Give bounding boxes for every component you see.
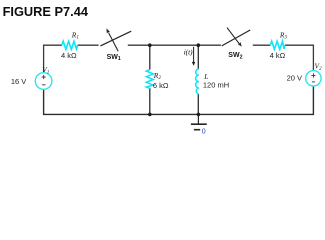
- svg-text:6 kΩ: 6 kΩ: [153, 81, 169, 90]
- ground: [197, 114, 199, 124]
- switch SW2 arrow: [227, 28, 239, 44]
- svg-text:4 kΩ: 4 kΩ: [61, 51, 77, 60]
- node B junction dot (top of L branch): [197, 43, 201, 47]
- svg-text:20 V: 20 V: [287, 74, 302, 83]
- svg-text:FIGURE P7.44: FIGURE P7.44: [3, 4, 89, 19]
- inductor L: [196, 69, 199, 94]
- resistor R1: [62, 41, 78, 49]
- wire R1 to SW1 left contact: [78, 44, 99, 46]
- wire R3 to top right corner: [285, 45, 314, 71]
- svg-text:120 mH: 120 mH: [203, 80, 229, 89]
- svg-text:4 kΩ: 4 kΩ: [270, 51, 286, 60]
- voltage source V2: [306, 71, 321, 86]
- wire L branch upper: [197, 45, 199, 69]
- switch SW2 blade: [222, 30, 251, 46]
- voltage source V1: [35, 73, 52, 90]
- wire R2 branch lower: [149, 88, 151, 114]
- resistor R3: [270, 41, 285, 49]
- svg-text:i(t): i(t): [184, 48, 193, 56]
- current arrow i(t): [193, 47, 195, 63]
- svg-text:16 V: 16 V: [11, 77, 26, 86]
- wire R2 branch upper: [149, 45, 151, 69]
- wire right below V2: [312, 86, 314, 116]
- wire bottom rail: [44, 113, 314, 115]
- wire left below V1: [43, 89, 45, 115]
- wire SW1 right contact to SW2 left contact: [128, 44, 221, 46]
- node A junction dot (top of R2 branch): [148, 43, 152, 47]
- switch SW1 blade: [100, 31, 131, 46]
- node D junction dot (bottom of L branch / ground): [197, 113, 201, 117]
- svg-text:0: 0: [202, 129, 206, 136]
- wire L branch lower: [197, 94, 199, 115]
- wire SW2 right contact to R3: [253, 44, 270, 46]
- switch SW1 arrow: [109, 33, 119, 51]
- node C junction dot (bottom of R2 branch): [148, 113, 152, 117]
- resistor R2: [146, 70, 153, 89]
- wire top segment V1 to R1: [44, 45, 62, 73]
